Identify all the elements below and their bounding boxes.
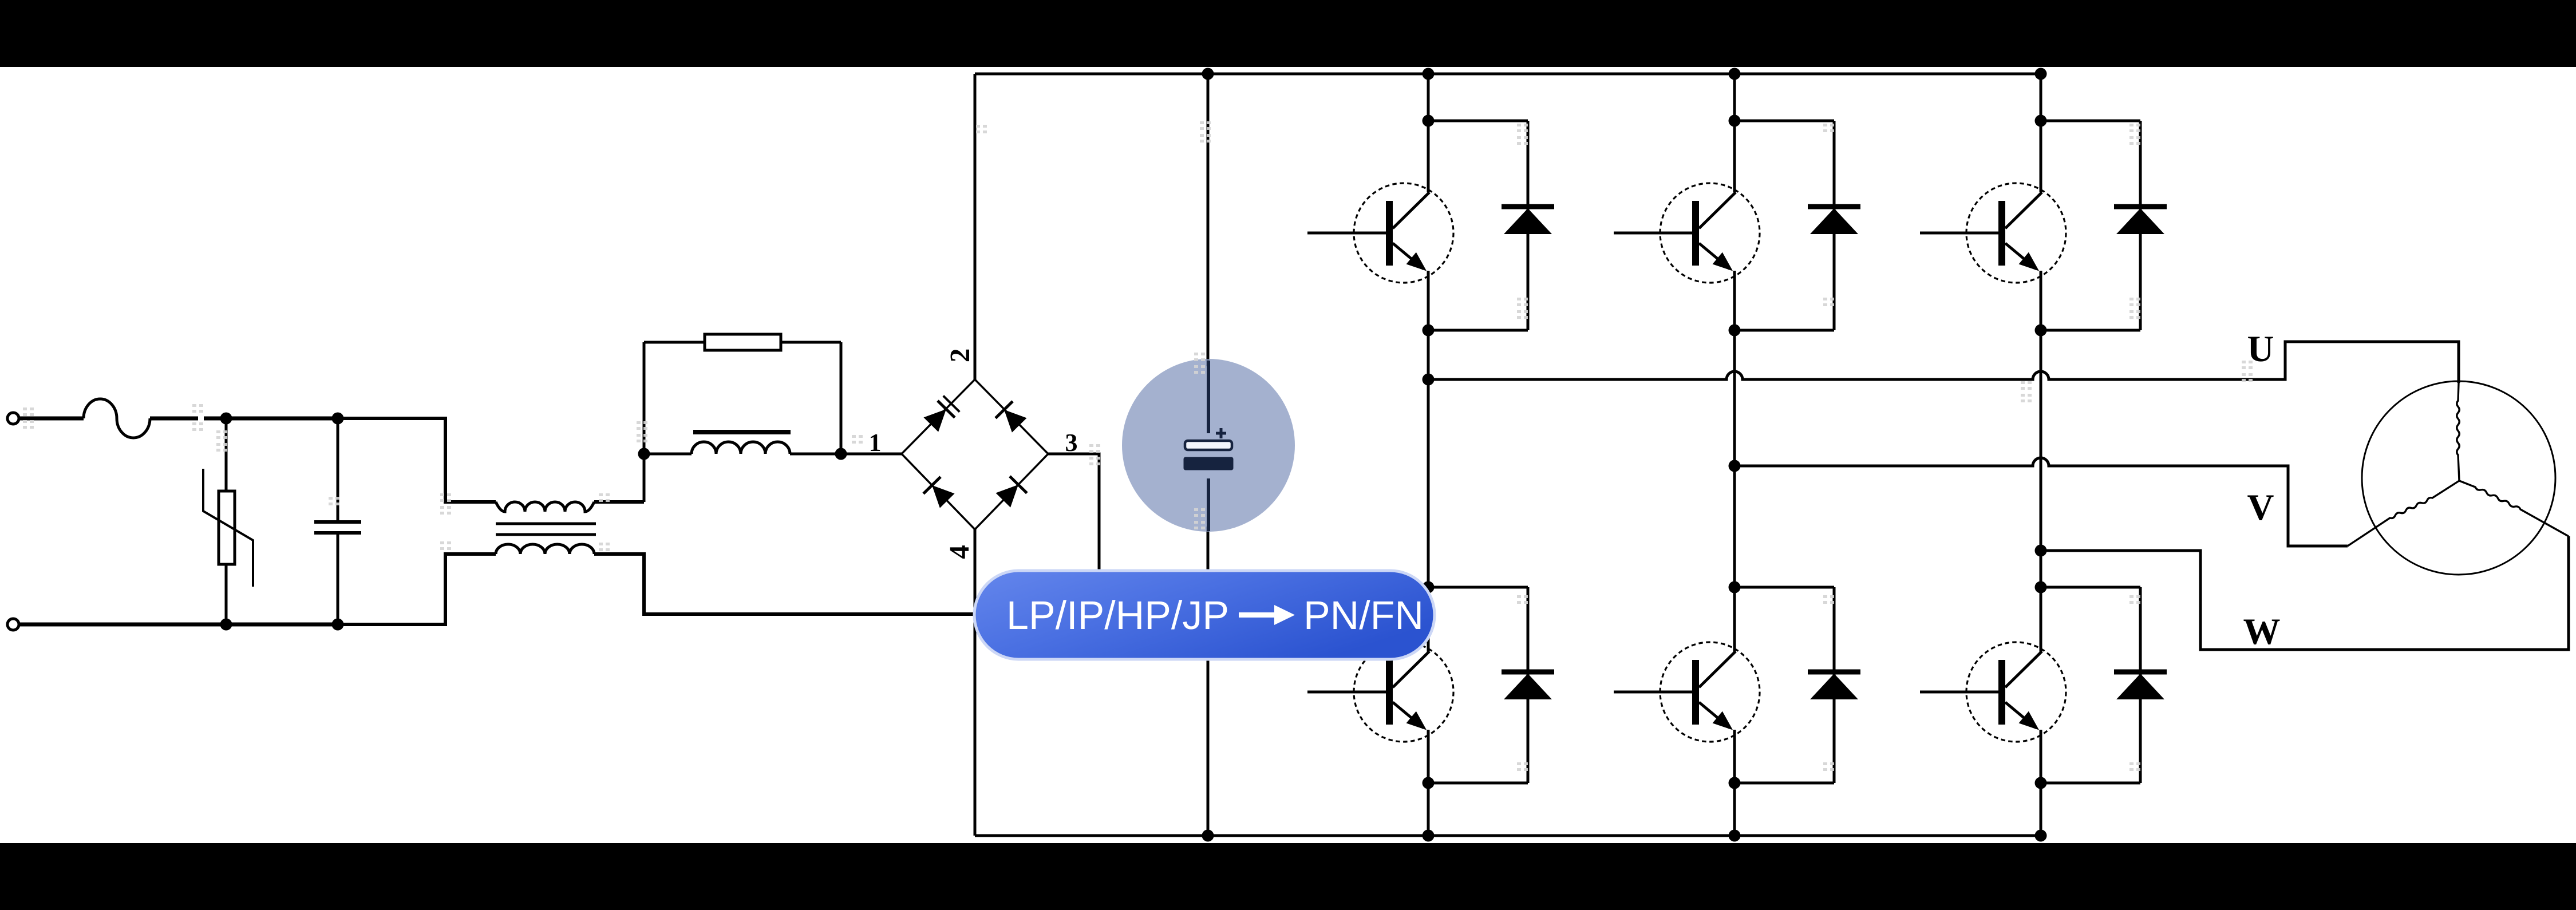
- wire: [790, 453, 841, 456]
- freewheel diode upper 3: [2114, 204, 2167, 209]
- fuse F1: [84, 399, 150, 438]
- wire mid leg: [2040, 271, 2042, 652]
- emitter diag: [1699, 243, 1730, 269]
- wire: [840, 342, 843, 454]
- node junction: [835, 448, 847, 460]
- junction diode branch: [1423, 115, 1435, 127]
- choke T1 winding bottom: [496, 544, 594, 554]
- freewheel diode upper 1: [1502, 204, 1554, 209]
- wire: [644, 453, 692, 456]
- emitter diag: [2005, 243, 2036, 269]
- collector diag: [1393, 192, 1429, 228]
- wire: [644, 341, 705, 344]
- junction diode branch: [1729, 115, 1741, 127]
- wire: [594, 554, 1099, 614]
- motor winding U: [2457, 383, 2460, 481]
- wire cap top lead: [1207, 74, 1210, 366]
- wire to lower diode: [1428, 586, 1528, 589]
- wire: [643, 342, 646, 454]
- wire: [594, 500, 644, 504]
- AC input terminal L: [7, 413, 19, 424]
- capacitor C1: [314, 520, 361, 524]
- varistor RV1: [219, 491, 235, 564]
- junction bottom bus / C2: [1202, 830, 1214, 842]
- wire diode bottom: [1428, 329, 1528, 332]
- wire: [19, 417, 84, 421]
- diode branch wire: [2139, 121, 2142, 330]
- wire to diode: [2041, 120, 2140, 122]
- junction emitter/diode: [2035, 325, 2047, 337]
- wire emitter lower: [2040, 730, 2042, 836]
- emitter diag: [2005, 702, 2036, 728]
- junction diode branch lower: [1729, 581, 1741, 594]
- junction lower emitter/diode: [1423, 777, 1435, 789]
- wire: [204, 417, 224, 421]
- transistor Q1 bottom: [1354, 642, 1453, 742]
- wire: [338, 554, 496, 624]
- node 3 label: [1066, 434, 1077, 452]
- freewheel diode upper 2: [1808, 204, 1860, 209]
- wire emitter lower: [1733, 730, 1736, 836]
- emitter diag: [1393, 702, 1424, 728]
- transistor Q2 top: [1660, 183, 1760, 283]
- junction bottom bus: [1423, 830, 1435, 842]
- base lead: [1614, 232, 1699, 235]
- inductor L1: [692, 442, 790, 454]
- varistor strike: [203, 469, 253, 587]
- collector diag: [1699, 651, 1736, 687]
- DC- bottom bus: [975, 834, 2041, 837]
- collector diag: [2005, 192, 2042, 228]
- wire to diode: [1735, 120, 1834, 122]
- label W: [2243, 619, 2279, 644]
- wire phase W: [2041, 536, 2569, 650]
- wire node2 to DC+ bus: [974, 74, 977, 379]
- wire lower diode bottom: [1428, 782, 1528, 785]
- collector diag: [1699, 192, 1736, 228]
- phase tap 2: [1729, 460, 1741, 472]
- base lead: [1920, 691, 2005, 694]
- wire diode bottom: [1735, 329, 1834, 332]
- node 4 label: [950, 545, 969, 559]
- wire: [150, 417, 198, 421]
- bridge edges: [902, 379, 1048, 529]
- node junction: [332, 413, 344, 425]
- base lead: [1307, 232, 1393, 235]
- wire: [19, 623, 226, 627]
- wire cap bottom lead: [1207, 527, 1210, 836]
- wire: [225, 418, 228, 491]
- label U: [2248, 337, 2273, 361]
- wire diode bottom: [2041, 329, 2140, 332]
- wire collector upper: [2040, 74, 2042, 192]
- wire lower diode bottom: [1735, 782, 1834, 785]
- wire: [226, 623, 338, 627]
- node junction: [332, 619, 344, 631]
- emitter diag: [1393, 243, 1424, 269]
- junction diode branch lower: [2035, 581, 2047, 594]
- node junction: [638, 448, 650, 460]
- wire: [781, 341, 841, 344]
- junction diode branch lower: [1423, 581, 1435, 594]
- diode branch wire: [1527, 121, 1530, 330]
- node junction: [220, 619, 232, 631]
- collector diag: [2005, 651, 2042, 687]
- wire to lower diode: [1735, 586, 1834, 589]
- wire: [226, 417, 338, 421]
- node 2 label: [951, 350, 969, 361]
- emitter diag: [1699, 702, 1730, 728]
- choke T1 core: [496, 523, 596, 525]
- junction top bus leg 1: [1423, 68, 1435, 80]
- wire: [337, 533, 339, 624]
- bridge diode D3 (4-1): [923, 477, 956, 509]
- motor winding W: [2459, 481, 2569, 536]
- junction bottom bus: [2035, 830, 2047, 842]
- junction lower emitter/diode: [1729, 777, 1741, 789]
- wire node4 to DC- bus: [974, 529, 977, 836]
- inductor L1 core bar: [693, 430, 791, 434]
- junction top bus leg 3: [2035, 68, 2047, 80]
- wire: [643, 454, 646, 502]
- capacitor C2 (electrolytic, highlighted): [1184, 361, 1233, 531]
- callout pill LP/IP/HP/JP -> PN/FN: [974, 571, 1435, 659]
- wire collector upper: [1427, 74, 1430, 192]
- diode branch wire: [1833, 121, 1836, 330]
- wire mid leg: [1427, 271, 1430, 652]
- wire lower diode bottom: [2041, 782, 2140, 785]
- DC+ top bus: [975, 73, 2041, 76]
- bridge diode D1 (1-2): [922, 395, 960, 433]
- wire emitter lower: [1427, 730, 1430, 836]
- base lead: [1920, 232, 2005, 235]
- junction bottom bus: [1729, 830, 1741, 842]
- junction emitter/diode: [1423, 325, 1435, 337]
- wire: [337, 418, 339, 522]
- lower diode branch wire: [2139, 587, 2142, 783]
- wire: [338, 418, 496, 502]
- junction emitter/diode: [1729, 325, 1741, 337]
- resistor R1: [705, 334, 781, 350]
- junction diode branch: [2035, 115, 2047, 127]
- junction top bus leg 2: [1729, 68, 1741, 80]
- phase tap 3: [2035, 545, 2047, 557]
- transistor Q2 bottom: [1660, 642, 1760, 742]
- phase tap 1: [1423, 374, 1435, 386]
- junction top bus / C2: [1202, 68, 1214, 80]
- wire mid leg: [1733, 271, 1736, 652]
- freewheel diode lower 3: [2114, 670, 2167, 675]
- freewheel diode lower 1: [1502, 670, 1554, 675]
- junction lower emitter/diode: [2035, 777, 2047, 789]
- wire: [841, 453, 902, 456]
- motor winding V: [2348, 481, 2459, 546]
- freewheel diode lower 2: [1808, 670, 1860, 675]
- motor M (3-phase): [2362, 381, 2555, 575]
- transistor Q3 top: [1966, 183, 2066, 283]
- snap marks (decorative): [23, 121, 2253, 771]
- wire: [225, 564, 228, 624]
- wire collector upper: [1733, 74, 1736, 192]
- choke T1 winding top: [496, 502, 594, 512]
- bridge diode D2 (3-2): [995, 401, 1028, 434]
- lower diode branch wire: [1833, 587, 1836, 783]
- lower diode branch wire: [1527, 587, 1530, 783]
- wire to lower diode: [2041, 586, 2140, 589]
- collector diag: [1393, 651, 1429, 687]
- wire phase V: [1735, 458, 2348, 546]
- node junction: [220, 413, 232, 425]
- label V: [2247, 495, 2273, 520]
- AC input terminal N: [7, 619, 19, 630]
- base lead: [1614, 691, 1699, 694]
- wire phase U: [1428, 342, 2459, 383]
- transistor Q3 bottom: [1966, 642, 2066, 742]
- wire to diode: [1428, 120, 1528, 122]
- bridge diode D4 (4-3): [994, 476, 1027, 509]
- transistor Q1 top: [1354, 183, 1453, 283]
- node 1 label: [871, 434, 880, 451]
- base lead: [1307, 691, 1393, 694]
- highlight circle: [1122, 359, 1295, 532]
- wire node3: [1048, 454, 1099, 614]
